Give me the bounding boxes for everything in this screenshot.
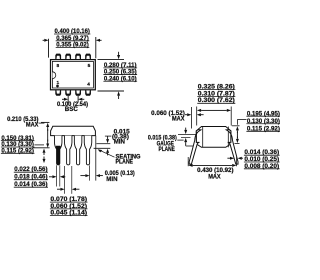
- top view: pin 1 dot: [56, 85, 59, 88]
- dim 0.100 BSC left arrow: [64, 98, 68, 101]
- svg-text:MAX: MAX: [208, 173, 221, 180]
- svg-text:MIN: MIN: [106, 176, 118, 183]
- svg-text:5: 5: [88, 63, 91, 69]
- gauge plane upper line: [178, 133, 197, 135]
- top view: pin 7 (top row): [65, 54, 71, 60]
- dim 0.430 right tick: [236, 157, 238, 166]
- top view: package body outline (outer): [51, 60, 96, 90]
- dim 0.060 left arrow: [187, 113, 191, 116]
- side view: lead 3: [74, 136, 82, 165]
- dim 0.005 left arrow: [85, 174, 89, 177]
- dim 0.280 bottom arrow: [117, 91, 120, 95]
- dim 0.070 right arrow: [72, 188, 76, 191]
- dim 0.060 right arrow: [197, 113, 201, 116]
- dim 0.100 BSC right tick: [77, 96, 79, 103]
- svg-text:4: 4: [87, 82, 90, 88]
- gauge plane lower line: [181, 137, 191, 139]
- top view: pin 1 (bottom row): [55, 90, 61, 96]
- side view: lead 4: [84, 136, 92, 165]
- side view: lead 2: [64, 136, 72, 165]
- seating plane extension line (left): [33, 147, 50, 149]
- dim 0.015min leader: [105, 135, 111, 137]
- dim 0.015 gauge up arrow: [184, 138, 187, 142]
- dim 0.280 top arrow: [117, 55, 120, 59]
- end view: right lead: [226, 130, 238, 165]
- top view: pin 5 (top row): [85, 54, 91, 60]
- lead length dim down arrow: [43, 159, 46, 163]
- lead1 right extension line: [59, 165, 61, 186]
- shoulder left extension line: [64, 166, 66, 194]
- lead1 left extension line: [56, 165, 58, 186]
- dim 0.210 max leader: [39, 122, 45, 124]
- dim 0.015 gauge text connector: [177, 139, 183, 141]
- dim 0.210 dimension line body: [47, 129, 49, 142]
- dim 0.005 right arrow: [96, 174, 100, 177]
- svg-text:PLANE: PLANE: [116, 158, 134, 165]
- dim 0.430 arrows: [188, 164, 192, 167]
- top view: pin 3 (bottom row): [75, 90, 81, 96]
- end view: package body: [196, 127, 231, 148]
- svg-text:MIN: MIN: [114, 139, 126, 146]
- dim 0.325 line with outward arrows: [197, 109, 201, 112]
- top view: pin 8 (top row): [55, 54, 61, 60]
- side view: lead 1: [54, 136, 62, 165]
- svg-text:BSC: BSC: [65, 106, 79, 113]
- dim 0.400 left arrow: [44, 39, 48, 42]
- end view: body right cap line: [227, 127, 229, 148]
- lead4 right extension line: [89, 165, 91, 180]
- svg-text:MAX: MAX: [26, 121, 39, 128]
- dim 0.210 dimension line up arrow: [46, 123, 49, 127]
- lead span extension line A: [190, 107, 192, 129]
- body left extension line B: [196, 107, 198, 126]
- dim 0.015 gauge leader bend: [185, 145, 187, 147]
- dim 0.195 top ext: [232, 125, 240, 127]
- dim 0.022 left arrow: [52, 175, 56, 178]
- dim 0.400 left extension line: [48, 39, 50, 58]
- svg-text:MAX: MAX: [172, 115, 185, 122]
- dim 0.100 BSC left tick: [67, 96, 69, 103]
- dim 0.014 left arrow: [230, 157, 234, 160]
- dim 0.130 leader: [34, 144, 44, 146]
- side view: lead 1 filled section: [56, 146, 60, 165]
- dim 0.195 leader bracket: [237, 119, 246, 121]
- seating plane leader arrow: [98, 149, 103, 152]
- dim 0.400 right extension line: [95, 37, 97, 58]
- dim 0.014 right arrow: [238, 157, 242, 160]
- end view: left lead: [189, 130, 201, 165]
- dim 0.070 left arrow: [60, 188, 64, 191]
- dim 0.195 line: [236, 132, 238, 139]
- dim 0.195 bottom tick: [235, 143, 240, 145]
- seating plane extension line (right): [94, 147, 111, 149]
- dim 0.015min bottom arrow: [106, 149, 109, 153]
- shoulder end extension line (right): [96, 143, 110, 145]
- dim 0.022 right arrow: [60, 175, 64, 178]
- dim 0.100 BSC right arrow: [78, 98, 82, 101]
- dim 0.210 top extension line: [41, 121, 49, 123]
- dim 0.210 dimension line down arrow: [46, 144, 49, 148]
- top view: pin 1 index notch: [52, 72, 55, 79]
- lead length dim up arrow: [43, 149, 46, 153]
- dim 0.195 up arrow: [236, 126, 239, 130]
- side view: body right edge extension to seating/below: [95, 136, 97, 181]
- body right extension line C: [230, 107, 232, 126]
- top view: pin 2 (bottom row): [65, 90, 71, 96]
- dim 0.430 left tick: [187, 157, 189, 166]
- dim 0.280 bottom extension line: [98, 90, 125, 92]
- dim 0.015min top arrow: [106, 139, 109, 143]
- side view: package body: [51, 126, 96, 135]
- top view: package body inner line: [52, 61, 93, 88]
- dim 0.195 down arrow: [236, 139, 239, 143]
- dim 0.015 gauge down arrow: [184, 130, 187, 134]
- dim 0.400 right arrow: [96, 39, 100, 42]
- top view: pin 6 (top row): [75, 54, 81, 60]
- shoulder right extension line: [71, 166, 73, 194]
- top view: pin 4 (bottom row): [85, 90, 91, 96]
- dim 0.280 top extension line: [98, 59, 125, 61]
- end view: body left cap line: [202, 127, 204, 148]
- svg-text:8: 8: [56, 63, 59, 69]
- svg-text:PLANE: PLANE: [159, 146, 175, 153]
